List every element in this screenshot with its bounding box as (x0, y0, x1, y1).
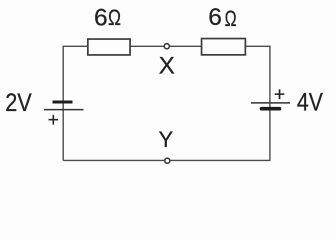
svg-text:2V: 2V (5, 89, 32, 117)
svg-text:+: + (48, 110, 59, 131)
svg-text:X: X (159, 53, 175, 80)
battery B1 negative plate (short thick) (53, 101, 73, 104)
svg-text:Ω: Ω (108, 5, 121, 30)
wire left vertical (62, 46, 64, 160)
node Y (165, 158, 170, 163)
svg-text:6: 6 (94, 4, 108, 31)
wire R2 to top right corner (245, 45, 271, 47)
wire R1 to R2 through node X (130, 45, 201, 47)
svg-text:Y: Y (159, 127, 174, 152)
resistor R2 (202, 39, 246, 55)
node X (164, 44, 169, 49)
svg-text:4V: 4V (297, 88, 323, 116)
battery B1 positive plate (long thin) (44, 109, 84, 111)
wire top left segment (63, 45, 89, 47)
wire bottom (63, 159, 270, 161)
svg-text:6: 6 (208, 4, 222, 31)
svg-text:Ω: Ω (225, 6, 237, 31)
battery B2 negative plate (short thick) (262, 107, 280, 111)
resistor R1 (88, 39, 130, 55)
wire right vertical (269, 46, 271, 161)
battery B2 positive plate (long thin) (251, 102, 290, 104)
svg-text:+: + (274, 84, 285, 105)
